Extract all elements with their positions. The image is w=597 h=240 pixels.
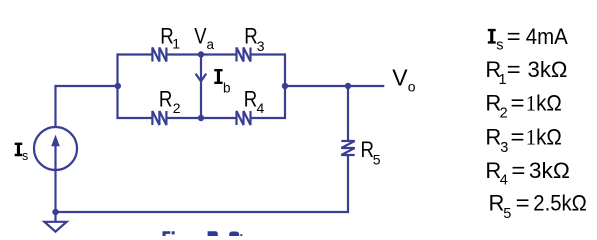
node: R5 tap junction [345, 83, 351, 89]
svg-text:o: o [408, 78, 416, 94]
svg-text:=: = [516, 190, 530, 215]
label Is [15, 143, 29, 163]
svg-text:1kΩ: 1kΩ [526, 90, 562, 115]
node: left bridge node [115, 83, 121, 89]
label Vo [392, 65, 416, 95]
svg-text:2: 2 [173, 100, 181, 116]
wire: bridge right edge [251, 55, 286, 119]
wire: source top to left bridge node [56, 86, 118, 127]
resistor R3 [237, 48, 251, 62]
svg-text:2: 2 [500, 106, 508, 122]
value label Is = 4mA [488, 24, 568, 53]
svg-text:b: b [223, 80, 231, 95]
current arrow Ib (chevron on middle branch) [196, 74, 207, 82]
value label R3 = 1kOhm [485, 124, 561, 156]
svg-text:R: R [244, 87, 257, 112]
svg-text:=: = [511, 124, 525, 149]
svg-text:R: R [485, 124, 501, 149]
resistor R5 [341, 141, 354, 155]
wire: R5 branch lower [56, 155, 349, 212]
resistor R4 [237, 111, 251, 125]
wire: middle branch Va to bottom node [200, 55, 202, 119]
svg-text:3kΩ: 3kΩ [528, 57, 568, 82]
svg-text:=: = [511, 158, 525, 183]
value label R5 = 2.5kOhm [489, 190, 587, 221]
svg-text:a: a [207, 37, 215, 52]
svg-text:4mA: 4mA [526, 24, 568, 49]
label R2 [159, 87, 181, 116]
node: middle bottom junction [198, 115, 204, 121]
svg-text:1: 1 [499, 72, 507, 88]
svg-text:4: 4 [257, 100, 265, 116]
value label R2 = 1kOhm [485, 90, 561, 121]
svg-text:R: R [159, 87, 173, 112]
caption Fig. P 3. (cut off at page bottom, visible glyph tops only) [163, 231, 243, 236]
label Va [194, 24, 214, 53]
svg-text:=: = [511, 90, 525, 115]
svg-text:5: 5 [503, 206, 511, 222]
svg-text:2.5kΩ: 2.5kΩ [533, 190, 587, 215]
svg-text:s: s [496, 38, 503, 54]
node Va (dot) [198, 51, 204, 57]
label R5 [361, 137, 381, 167]
svg-text:3: 3 [500, 140, 508, 156]
wire: R5 branch upper [347, 86, 349, 141]
current source Is (circle with up arrow) [34, 127, 77, 170]
label Ib [214, 69, 230, 95]
svg-text:4: 4 [500, 173, 508, 189]
svg-text:V: V [194, 24, 207, 49]
ground [44, 212, 66, 232]
svg-text:=: = [507, 57, 521, 82]
svg-text:s: s [22, 149, 28, 163]
wire: right node to Vo [285, 85, 384, 87]
wire: top rail middle segment [166, 53, 236, 55]
node: right bridge node [282, 83, 288, 89]
svg-text:V: V [392, 65, 408, 91]
svg-text:=: = [507, 24, 521, 49]
resistor R2 [152, 111, 166, 125]
svg-text:1: 1 [172, 36, 180, 52]
wire: bridge left edge [118, 55, 153, 119]
wire: bottom rail middle segment [166, 117, 236, 119]
label R3 [244, 24, 264, 55]
svg-text:5: 5 [373, 152, 381, 168]
resistor R1 [152, 48, 166, 62]
svg-text:R: R [489, 190, 505, 215]
value label R4 = 3kOhm [485, 158, 570, 189]
wire: source bottom to ground node [54, 170, 56, 212]
label R4 [244, 87, 265, 117]
value label R1 = 3kOhm [485, 57, 567, 88]
label R1 [160, 24, 180, 52]
svg-text:1kΩ: 1kΩ [526, 124, 562, 149]
svg-text:3kΩ: 3kΩ [529, 158, 570, 183]
svg-text:R: R [244, 24, 257, 49]
svg-text:3: 3 [257, 38, 265, 54]
node: ground junction [52, 209, 58, 215]
